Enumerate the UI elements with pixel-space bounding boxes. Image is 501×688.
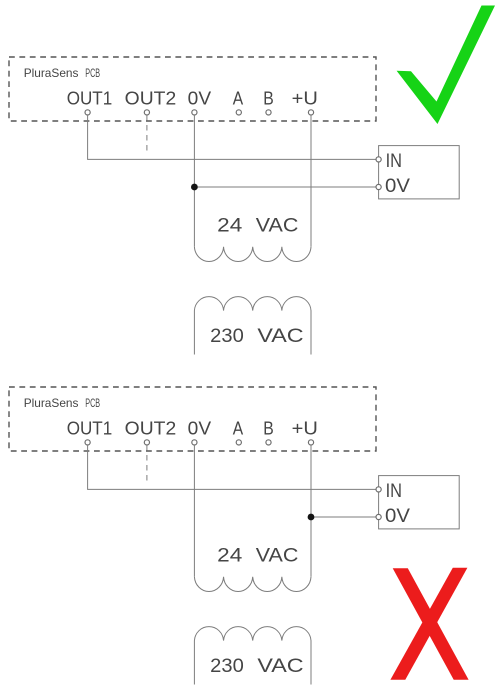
terminal 0V (diagram 1): [192, 110, 197, 115]
svg-text:+U: +U: [292, 88, 318, 108]
svg-text:+U: +U: [292, 418, 318, 438]
terminal A (diagram 2): [236, 440, 241, 445]
green checkmark (correct symbol): [397, 6, 495, 125]
terminal B (diagram 2): [266, 440, 271, 445]
svg-text:VAC: VAC: [256, 215, 299, 237]
wire stub OUT2 dashed (diagram 1): [146, 115, 148, 152]
device box IN/0V (diagram 1): [379, 146, 460, 199]
terminal 0V (diagram 2): [192, 440, 197, 445]
transformer T1 24 VAC winding (diagram 2): [194, 577, 311, 592]
svg-text:PCB: PCB: [85, 396, 100, 410]
svg-text:OUT2: OUT2: [125, 88, 177, 108]
terminal OUT2 (diagram 1): [144, 110, 149, 115]
transformer T2 230 VAC winding (diagram 2): [194, 627, 311, 685]
svg-text:0V: 0V: [188, 418, 211, 438]
svg-text:IN: IN: [386, 151, 402, 172]
wire +U vertical / transformer right lead (diagram 2): [310, 445, 312, 577]
device terminal IN (diagram 2): [376, 487, 381, 492]
junction node on 0V wire (diagram 1): [191, 184, 198, 191]
terminal B (diagram 1): [266, 110, 271, 115]
svg-text:0V: 0V: [385, 506, 410, 527]
device terminal 0V (diagram 2): [376, 514, 381, 519]
svg-text:230: 230: [210, 325, 244, 347]
svg-text:0V: 0V: [188, 88, 211, 108]
svg-text:IN: IN: [386, 481, 402, 502]
svg-text:PluraSens: PluraSens: [24, 66, 79, 80]
svg-text:PCB: PCB: [85, 66, 100, 80]
wire +U to device 0V (incorrect) (diagram 2): [311, 516, 376, 518]
wire +U vertical / transformer right lead (diagram 1): [310, 115, 312, 247]
svg-text:B: B: [263, 418, 274, 438]
terminal +U (diagram 1): [308, 110, 313, 115]
wire stub OUT2 dashed (diagram 2): [146, 445, 148, 482]
svg-text:VAC: VAC: [257, 325, 303, 347]
terminal OUT1 (diagram 1): [85, 110, 90, 115]
svg-text:A: A: [233, 418, 243, 438]
junction node on +U wire (diagram 2): [308, 514, 315, 521]
transformer T2 230 VAC winding (diagram 1): [194, 297, 311, 355]
terminal OUT2 (diagram 2): [144, 440, 149, 445]
svg-text:OUT1: OUT1: [67, 418, 113, 438]
svg-text:VAC: VAC: [257, 655, 303, 677]
svg-text:A: A: [233, 88, 243, 108]
wire 0V vertical / transformer left lead (diagram 1): [193, 115, 195, 247]
transformer T1 24 VAC winding (diagram 1): [194, 247, 311, 262]
wire 0V vertical / transformer left lead (diagram 2): [193, 445, 195, 577]
terminal +U (diagram 2): [308, 440, 313, 445]
svg-text:B: B: [263, 88, 274, 108]
svg-text:OUT1: OUT1: [67, 88, 113, 108]
PCB outline box (dashed) diagram 1: [9, 57, 376, 121]
svg-text:VAC: VAC: [256, 545, 299, 567]
device terminal 0V (diagram 1): [376, 184, 381, 189]
wire 0V to device 0V (diagram 1): [194, 186, 376, 188]
red cross (incorrect symbol): [393, 568, 469, 680]
svg-text:230: 230: [210, 655, 244, 677]
wire OUT1 to device IN (diagram 2): [88, 445, 376, 489]
svg-text:24: 24: [217, 545, 242, 567]
device terminal IN (diagram 1): [376, 157, 381, 162]
wire OUT1 to device IN (diagram 1): [88, 115, 376, 159]
svg-text:OUT2: OUT2: [125, 418, 177, 438]
svg-text:24: 24: [217, 215, 242, 237]
svg-text:PluraSens: PluraSens: [24, 396, 79, 410]
device box IN/0V (diagram 2): [379, 476, 460, 529]
svg-text:0V: 0V: [385, 176, 410, 197]
PCB outline box (dashed) diagram 2: [9, 387, 376, 451]
terminal A (diagram 1): [236, 110, 241, 115]
terminal OUT1 (diagram 2): [85, 440, 90, 445]
